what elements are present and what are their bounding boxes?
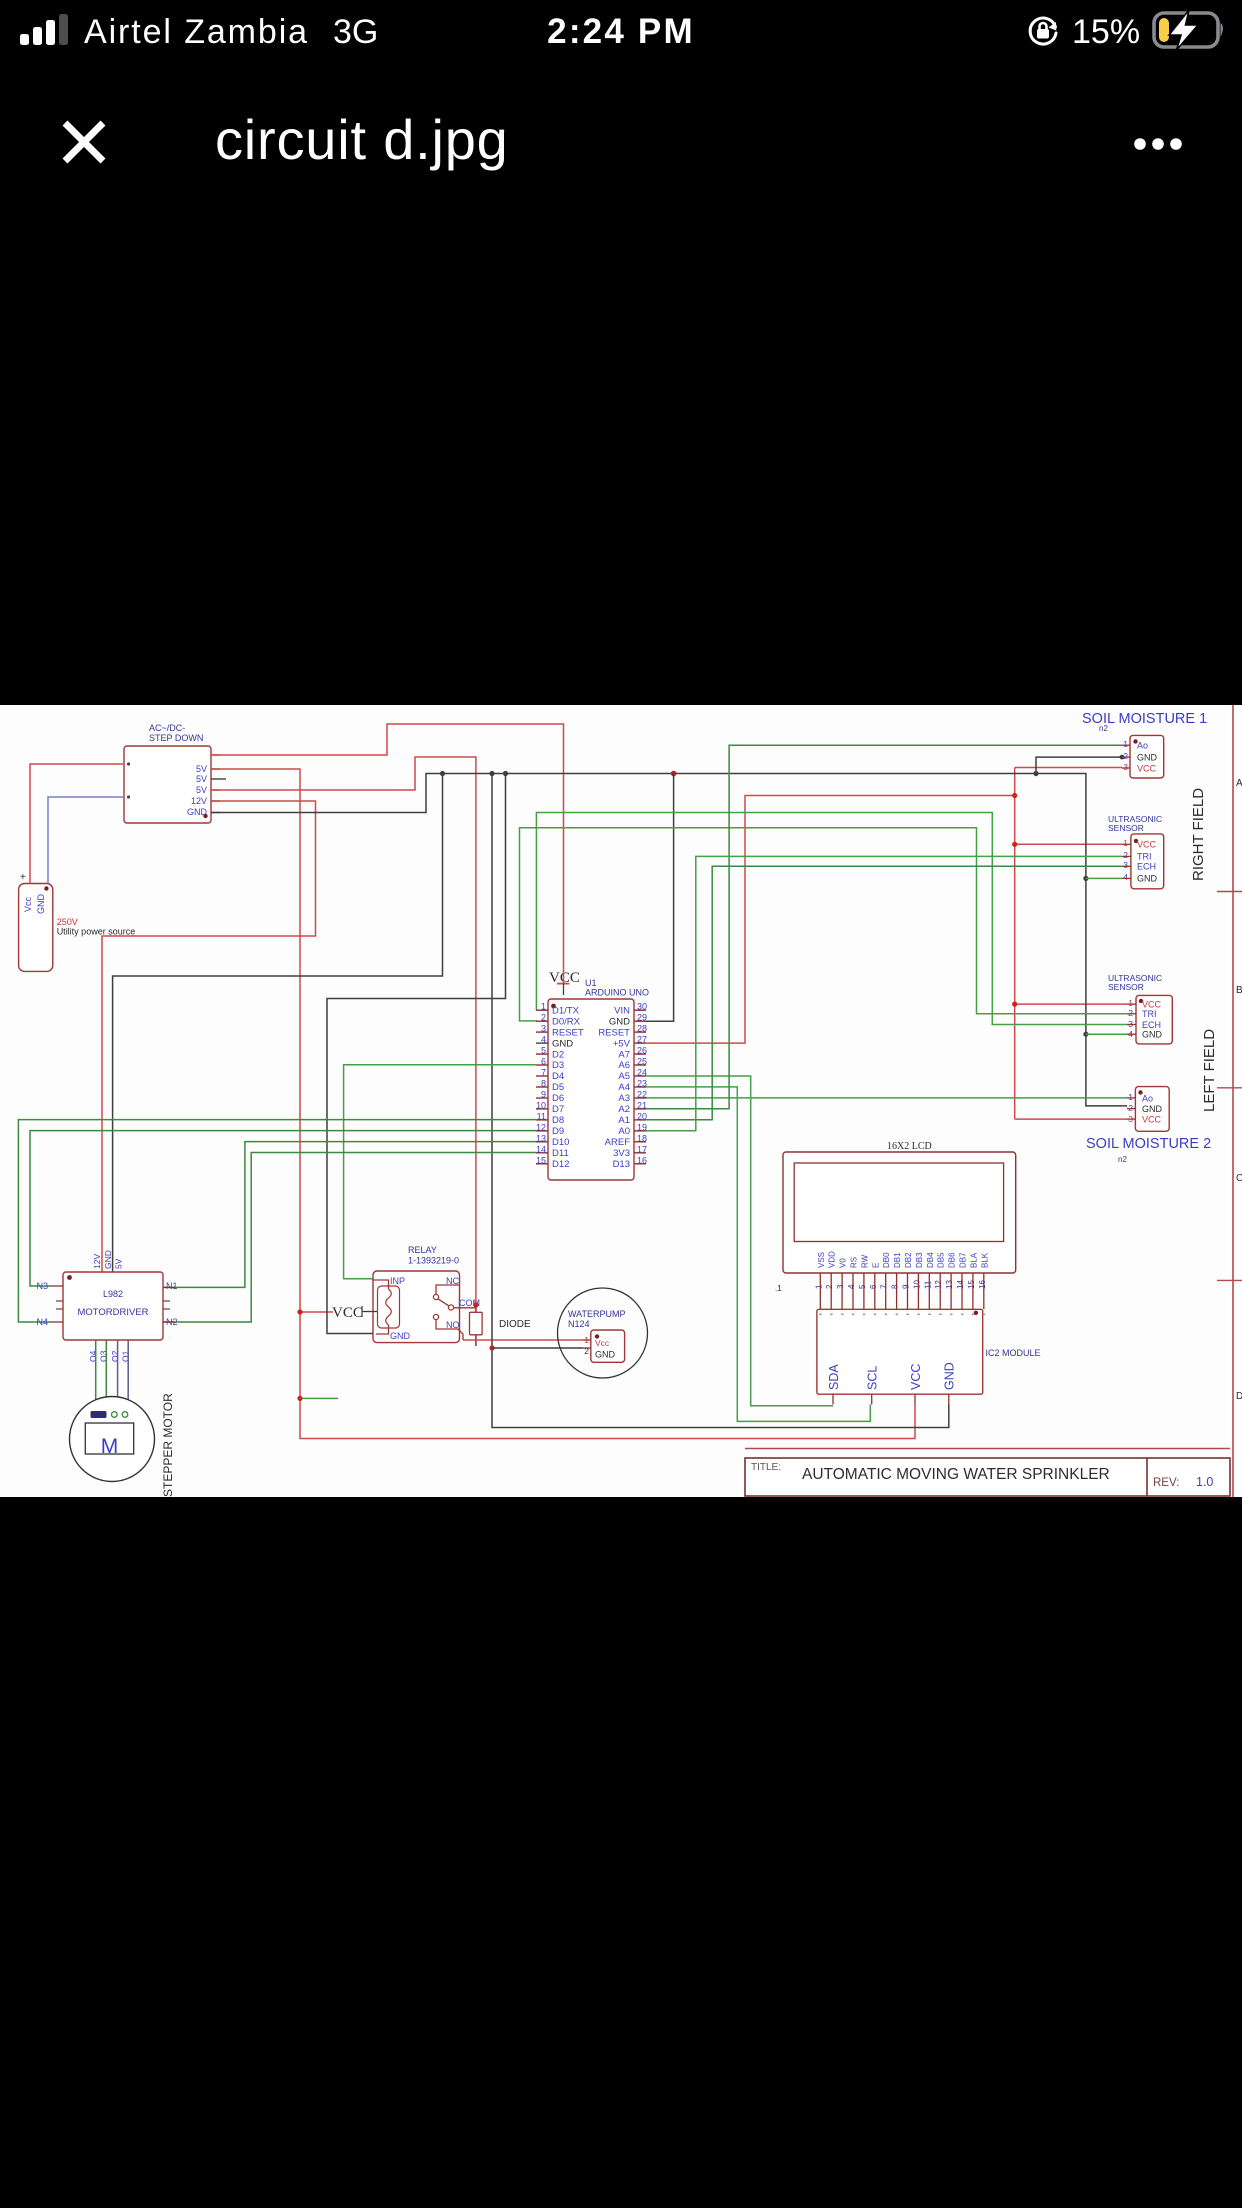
- wire: motor phase O1: [127, 1340, 129, 1411]
- close (X) button: [62, 120, 106, 164]
- svg-text:D: D: [1236, 1391, 1242, 1402]
- svg-text:A1: A1: [618, 1115, 630, 1126]
- junction: GND to ultrasonic 2: [1083, 1032, 1088, 1037]
- svg-text:N3: N3: [36, 1281, 48, 1291]
- svg-text:2: 2: [825, 1284, 834, 1289]
- svg-text:B: B: [1236, 985, 1242, 996]
- svg-text:6: 6: [541, 1057, 546, 1067]
- svg-text:A3: A3: [618, 1093, 630, 1104]
- wire: AC line (utility + to AC/DC input): [30, 764, 124, 884]
- svg-text:A7: A7: [618, 1049, 630, 1060]
- svg-text:U1: U1: [585, 978, 597, 988]
- wire: GND bus from AC/DC: [211, 774, 1127, 1106]
- svg-text:M: M: [101, 1435, 119, 1458]
- svg-text:D9: D9: [552, 1126, 564, 1137]
- svg-text:21: 21: [637, 1100, 647, 1110]
- display LCD1 16X2 LCD: [775, 1141, 1016, 1309]
- svg-text:1: 1: [541, 1002, 546, 1012]
- power flag VCC (arduino supply): [549, 970, 580, 995]
- svg-text:3: 3: [541, 1024, 546, 1034]
- svg-text:5V: 5V: [196, 764, 207, 774]
- wire: D11 to motor driver N2: [163, 1153, 536, 1323]
- svg-text:16: 16: [978, 1280, 987, 1289]
- svg-text:12: 12: [536, 1122, 546, 1132]
- signal strength icon: [18, 12, 78, 48]
- svg-text:4: 4: [541, 1035, 546, 1045]
- wire: D0/RX to ultrasonic 2 TRI: [520, 828, 1128, 1021]
- svg-text:STEP DOWN: STEP DOWN: [149, 733, 203, 743]
- svg-text:D3: D3: [552, 1060, 564, 1071]
- svg-text:O4: O4: [88, 1350, 98, 1362]
- svg-text:19: 19: [637, 1122, 647, 1132]
- svg-text:D12: D12: [552, 1159, 569, 1170]
- svg-text:3: 3: [836, 1284, 845, 1289]
- svg-text:RELAY: RELAY: [408, 1245, 437, 1255]
- filename title: [215, 107, 509, 172]
- wire: arduino +5V to sensor VCC trunk: [646, 796, 1015, 1044]
- wire: arduino GND pin 29: [646, 774, 674, 1022]
- svg-text:9: 9: [541, 1090, 546, 1100]
- svg-text:1: 1: [1123, 739, 1128, 749]
- svg-text:GND: GND: [609, 1016, 630, 1027]
- schematic sheet frame (right border with zone letters): [1217, 705, 1242, 1497]
- svg-text:A: A: [1236, 778, 1242, 789]
- svg-text:5V: 5V: [196, 774, 207, 784]
- svg-text:RS: RS: [850, 1257, 859, 1268]
- svg-text:D6: D6: [552, 1093, 564, 1104]
- svg-text:D7: D7: [552, 1104, 564, 1115]
- wire: A1 to ultrasonic 1 ECH: [646, 866, 1122, 1119]
- battery icon (charging, low): [1152, 10, 1228, 50]
- junction: GND to ultrasonic 1: [1083, 876, 1088, 881]
- svg-text:A6: A6: [618, 1060, 630, 1071]
- wire: A2 to soil moisture 1 Ao: [646, 745, 1122, 1109]
- svg-text:D2: D2: [552, 1049, 564, 1060]
- wire: VCC branch to relay coil label: [300, 1311, 333, 1313]
- svg-text:2: 2: [1123, 751, 1128, 761]
- title block: [745, 1449, 1230, 1497]
- wire: GND to motor driver: [113, 774, 443, 1273]
- svg-text:DB0: DB0: [882, 1252, 891, 1268]
- svg-text:VSS: VSS: [817, 1252, 826, 1268]
- junction: GND bus to arduino: [671, 771, 677, 777]
- svg-text:Ao: Ao: [1137, 741, 1148, 751]
- svg-text:11: 11: [537, 1111, 546, 1121]
- wire: D10 to motor driver N1: [163, 1142, 536, 1288]
- svg-text:V0: V0: [839, 1258, 848, 1268]
- svg-text:C: C: [1236, 1173, 1242, 1184]
- svg-text:ECH: ECH: [1142, 1020, 1161, 1030]
- svg-text:VCC: VCC: [1142, 999, 1162, 1009]
- svg-text:VCC: VCC: [332, 1305, 363, 1321]
- svg-text:Vcc: Vcc: [23, 896, 33, 912]
- svg-text:24: 24: [637, 1068, 647, 1078]
- svg-text:STEPPER MOTOR: STEPPER MOTOR: [161, 1393, 175, 1497]
- svg-text:INP: INP: [390, 1276, 405, 1286]
- wire: VCC to ultrasonic 2: [1015, 1003, 1127, 1005]
- wire: A3 to soil moisture 2 Ao: [646, 1097, 1127, 1099]
- diode D1 flyback: [470, 1312, 532, 1335]
- svg-text:12V: 12V: [92, 1254, 102, 1269]
- svg-text:DB5: DB5: [937, 1252, 946, 1268]
- svg-text:3V3: 3V3: [613, 1148, 630, 1159]
- junction: VCC/relay: [297, 1309, 302, 1314]
- svg-text:4: 4: [847, 1284, 856, 1289]
- motor P1 water pump N124: [558, 1288, 648, 1378]
- svg-text:11: 11: [923, 1280, 932, 1289]
- svg-text:D4: D4: [552, 1071, 564, 1082]
- junction: trunk stub: [297, 1396, 302, 1401]
- svg-text:4: 4: [1123, 872, 1128, 882]
- svg-text:13: 13: [536, 1133, 546, 1143]
- motor M1 stepper motor: [70, 1393, 176, 1497]
- svg-text:n2: n2: [1118, 1155, 1127, 1164]
- svg-text:D0/RX: D0/RX: [552, 1016, 581, 1027]
- wire: AC neutral (blue): [48, 797, 124, 884]
- battery / utility power source BT1: [19, 872, 136, 971]
- wire: GND to water pump and IC2 module: [492, 774, 949, 1428]
- svg-text:DB3: DB3: [915, 1252, 924, 1268]
- svg-text:+5V: +5V: [613, 1038, 631, 1049]
- svg-text:O3: O3: [99, 1350, 109, 1362]
- svg-text:O2: O2: [110, 1350, 120, 1362]
- IC2 I2C backpack module: [817, 1309, 1041, 1404]
- wire: AC/DC 12V out to motor driver: [102, 801, 316, 1272]
- svg-text:RESET: RESET: [552, 1027, 584, 1038]
- svg-text:3: 3: [1123, 762, 1128, 772]
- wire: AC/DC 5V out to relay COM: [211, 757, 476, 1302]
- svg-text:5V: 5V: [114, 1258, 124, 1269]
- svg-text:16X2 LCD: 16X2 LCD: [887, 1141, 932, 1152]
- wire: water pump GND branch: [492, 1347, 583, 1349]
- svg-text:ECH: ECH: [1137, 862, 1156, 872]
- svg-text:23: 23: [637, 1079, 647, 1089]
- svg-text:ARDUINO UNO: ARDUINO UNO: [585, 988, 649, 998]
- svg-text:TITLE:: TITLE:: [751, 1462, 781, 1473]
- relay K1 1-1393219-0: [373, 1245, 480, 1343]
- svg-text:3: 3: [1123, 860, 1128, 870]
- svg-text:9: 9: [902, 1284, 911, 1289]
- wire: A4 to IC2 SCL: [646, 1087, 870, 1422]
- svg-text:SDA: SDA: [827, 1364, 841, 1390]
- junction: water pump GND: [489, 1345, 494, 1350]
- sensor soil moisture 1 (n2): [1082, 711, 1207, 778]
- junction: GND to soil moisture 1: [1033, 771, 1038, 776]
- svg-text:VCC: VCC: [1142, 1114, 1162, 1124]
- wire: AC/DC 5V out to relay VCC and IC2 VCC (left trunk): [211, 769, 915, 1439]
- svg-text:SOIL MOISTURE 2: SOIL MOISTURE 2: [1086, 1136, 1211, 1152]
- wire: GND to ultrasonic 1 (green tail): [1086, 877, 1122, 879]
- svg-text:6: 6: [869, 1284, 878, 1289]
- wire: VCC to soil moisture 2: [1015, 1118, 1127, 1120]
- svg-text:GND: GND: [103, 1250, 113, 1269]
- wire: VCC to soil moisture 1: [1015, 767, 1122, 769]
- svg-text:RESET: RESET: [598, 1027, 630, 1038]
- svg-text:LEFT FIELD: LEFT FIELD: [1201, 1029, 1218, 1112]
- svg-text:TRI: TRI: [1142, 1009, 1157, 1019]
- svg-text:VCC: VCC: [909, 1364, 923, 1390]
- svg-text:28: 28: [637, 1024, 647, 1034]
- wire: motor phase O3: [105, 1340, 107, 1411]
- svg-text:DB4: DB4: [926, 1252, 935, 1268]
- power label VCC at relay: [332, 1305, 377, 1321]
- svg-text:Ao: Ao: [1142, 1094, 1153, 1104]
- svg-text:DB1: DB1: [893, 1252, 902, 1268]
- svg-text:1: 1: [1123, 838, 1128, 848]
- svg-text:VDD: VDD: [828, 1251, 837, 1268]
- svg-text:L982: L982: [103, 1289, 123, 1299]
- svg-text:30: 30: [637, 1002, 647, 1012]
- svg-text:16: 16: [637, 1155, 647, 1165]
- wire: motor phase O4: [95, 1340, 97, 1411]
- svg-text:RW: RW: [860, 1254, 869, 1268]
- svg-text:D11: D11: [552, 1148, 569, 1159]
- svg-text:SENSOR: SENSOR: [1108, 982, 1144, 992]
- svg-text:REV:: REV:: [1153, 1477, 1179, 1489]
- svg-text:2: 2: [1123, 850, 1128, 860]
- svg-text:5V: 5V: [196, 785, 207, 795]
- svg-text:N4: N4: [36, 1317, 48, 1327]
- svg-text:D1/TX: D1/TX: [552, 1005, 580, 1016]
- svg-text:BLK: BLK: [980, 1252, 989, 1268]
- wire: VCC to ultrasonic 1: [1015, 843, 1122, 845]
- svg-text:VCC: VCC: [1137, 764, 1157, 774]
- wire: D9 to motor driver N3: [30, 1131, 536, 1286]
- svg-text:AC~/DC-: AC~/DC-: [149, 723, 185, 733]
- svg-text:RIGHT FIELD: RIGHT FIELD: [1190, 788, 1207, 881]
- svg-text:VIN: VIN: [614, 1005, 630, 1016]
- svg-text:D5: D5: [552, 1082, 564, 1093]
- svg-text:SCL: SCL: [866, 1366, 880, 1390]
- svg-text:GND: GND: [552, 1038, 573, 1049]
- wire: motor phase O2: [117, 1340, 119, 1411]
- svg-text:AREF: AREF: [605, 1137, 631, 1148]
- svg-text:1: 1: [1128, 998, 1133, 1008]
- svg-text:DB6: DB6: [948, 1252, 957, 1268]
- svg-text:1.0: 1.0: [1196, 1475, 1213, 1489]
- svg-text:7: 7: [880, 1284, 889, 1289]
- svg-text:A5: A5: [618, 1071, 630, 1082]
- junction: relay COM: [473, 1302, 478, 1307]
- AC/DC step-down converter PS1: [124, 723, 226, 823]
- junction: GND bus A: [440, 771, 445, 776]
- svg-text:22: 22: [637, 1090, 647, 1100]
- svg-text:GND: GND: [1137, 874, 1158, 884]
- wire: green stub at trunk: [302, 1397, 338, 1399]
- svg-text:D8: D8: [552, 1115, 564, 1126]
- svg-text:14: 14: [956, 1280, 965, 1289]
- svg-text:GND: GND: [36, 894, 46, 915]
- svg-text:n2: n2: [1099, 724, 1108, 733]
- svg-text:2: 2: [541, 1013, 546, 1023]
- wire: GND to ultrasonic 2 (green tail): [1086, 1033, 1127, 1035]
- svg-text:25: 25: [637, 1057, 647, 1067]
- wire: GND to relay: [327, 774, 506, 1334]
- svg-text:8: 8: [891, 1284, 900, 1289]
- svg-text:AUTOMATIC MOVING WATER SPRINKL: AUTOMATIC MOVING WATER SPRINKLER: [802, 1466, 1110, 1483]
- svg-text:WATERPUMP: WATERPUMP: [568, 1309, 626, 1319]
- svg-text:10: 10: [912, 1280, 921, 1289]
- svg-text:N1: N1: [166, 1281, 178, 1291]
- svg-text:7: 7: [541, 1068, 546, 1078]
- wire: relay COM through flyback diode: [475, 1302, 477, 1346]
- svg-text:14: 14: [536, 1144, 546, 1154]
- svg-text:5: 5: [541, 1046, 546, 1056]
- svg-text:5: 5: [858, 1284, 867, 1289]
- wire: sensor VCC trunk (vertical): [1014, 768, 1016, 1120]
- sensor ultrasonic 1 (right field): [1108, 814, 1164, 889]
- svg-text:VCC: VCC: [1137, 840, 1157, 850]
- svg-text:A2: A2: [618, 1104, 630, 1115]
- svg-text:.1: .1: [775, 1284, 782, 1293]
- svg-text:20: 20: [637, 1111, 647, 1121]
- svg-text:250V: 250V: [57, 917, 78, 927]
- svg-text:Utility power source: Utility power source: [57, 927, 136, 937]
- svg-text:10: 10: [536, 1100, 546, 1110]
- svg-text:D10: D10: [552, 1137, 569, 1148]
- IC L982 motor driver: [36, 1250, 177, 1362]
- svg-text:15: 15: [536, 1155, 546, 1165]
- svg-text:A4: A4: [618, 1082, 630, 1093]
- wire: GND to soil moisture 1: [1036, 757, 1122, 773]
- svg-text:13: 13: [945, 1280, 954, 1289]
- svg-text:GND: GND: [1142, 1030, 1163, 1040]
- svg-text:SENSOR: SENSOR: [1108, 823, 1144, 833]
- more options (three dots): [1128, 132, 1188, 156]
- svg-text:8: 8: [541, 1079, 546, 1089]
- svg-text:2: 2: [1128, 1008, 1133, 1018]
- svg-text:17: 17: [637, 1144, 647, 1154]
- IC U1 ARDUINO UNO: [536, 978, 649, 1180]
- wire: A5 to IC2 SDA: [646, 1076, 833, 1406]
- status bar: [0, 0, 1242, 64]
- svg-text:BLA: BLA: [969, 1252, 978, 1268]
- svg-text:O1: O1: [121, 1350, 131, 1362]
- sensor soil moisture 2 (n2): [1086, 1087, 1211, 1164]
- svg-text:GND: GND: [390, 1331, 411, 1341]
- wire: relay NO to water pump: [463, 1339, 583, 1341]
- junction dots on VCC trunk: [1012, 793, 1017, 798]
- sensor ultrasonic 2 (left field): [1108, 973, 1172, 1044]
- orientation lock icon: [1026, 14, 1060, 48]
- svg-text:D13: D13: [613, 1159, 630, 1170]
- svg-text:GND: GND: [1142, 1104, 1163, 1114]
- svg-text:+: +: [20, 872, 26, 883]
- wire: A0 to ultrasonic 1 TRI: [646, 856, 1122, 1130]
- svg-text:27: 27: [637, 1035, 647, 1045]
- junction: GND bus B: [489, 771, 494, 776]
- wire: D8 to motor driver N4: [18, 1120, 536, 1322]
- svg-text:MOTORDRIVER: MOTORDRIVER: [77, 1307, 148, 1318]
- svg-text:A0: A0: [618, 1126, 630, 1137]
- junction: GND bus C: [503, 771, 508, 776]
- svg-text:1-1393219-0: 1-1393219-0: [408, 1256, 459, 1266]
- svg-text:GND: GND: [1137, 753, 1158, 763]
- svg-text:26: 26: [637, 1046, 647, 1056]
- svg-text:1: 1: [814, 1284, 823, 1289]
- svg-text:Vcc: Vcc: [595, 1338, 610, 1348]
- svg-text:N124: N124: [568, 1319, 590, 1329]
- svg-text:DB7: DB7: [959, 1252, 968, 1268]
- svg-text:E: E: [871, 1263, 880, 1268]
- svg-text:12V: 12V: [191, 796, 207, 806]
- svg-text:IC2 MODULE: IC2 MODULE: [986, 1348, 1041, 1358]
- wire: D1/TX to ultrasonic 2 ECH: [536, 813, 1127, 1025]
- svg-text:15: 15: [967, 1280, 976, 1289]
- svg-text:DIODE: DIODE: [499, 1319, 531, 1330]
- wire: D3 to relay INP: [344, 1065, 536, 1279]
- svg-text:12: 12: [934, 1280, 943, 1289]
- wire: AC/DC 5V out to VCC flag: [211, 724, 564, 983]
- svg-text:GND: GND: [595, 1350, 616, 1360]
- svg-text:DB2: DB2: [904, 1252, 913, 1268]
- svg-text:TRI: TRI: [1137, 852, 1152, 862]
- svg-text:18: 18: [637, 1133, 647, 1143]
- svg-text:29: 29: [637, 1013, 647, 1023]
- svg-text:GND: GND: [943, 1362, 957, 1390]
- svg-text:1: 1: [1128, 1092, 1133, 1102]
